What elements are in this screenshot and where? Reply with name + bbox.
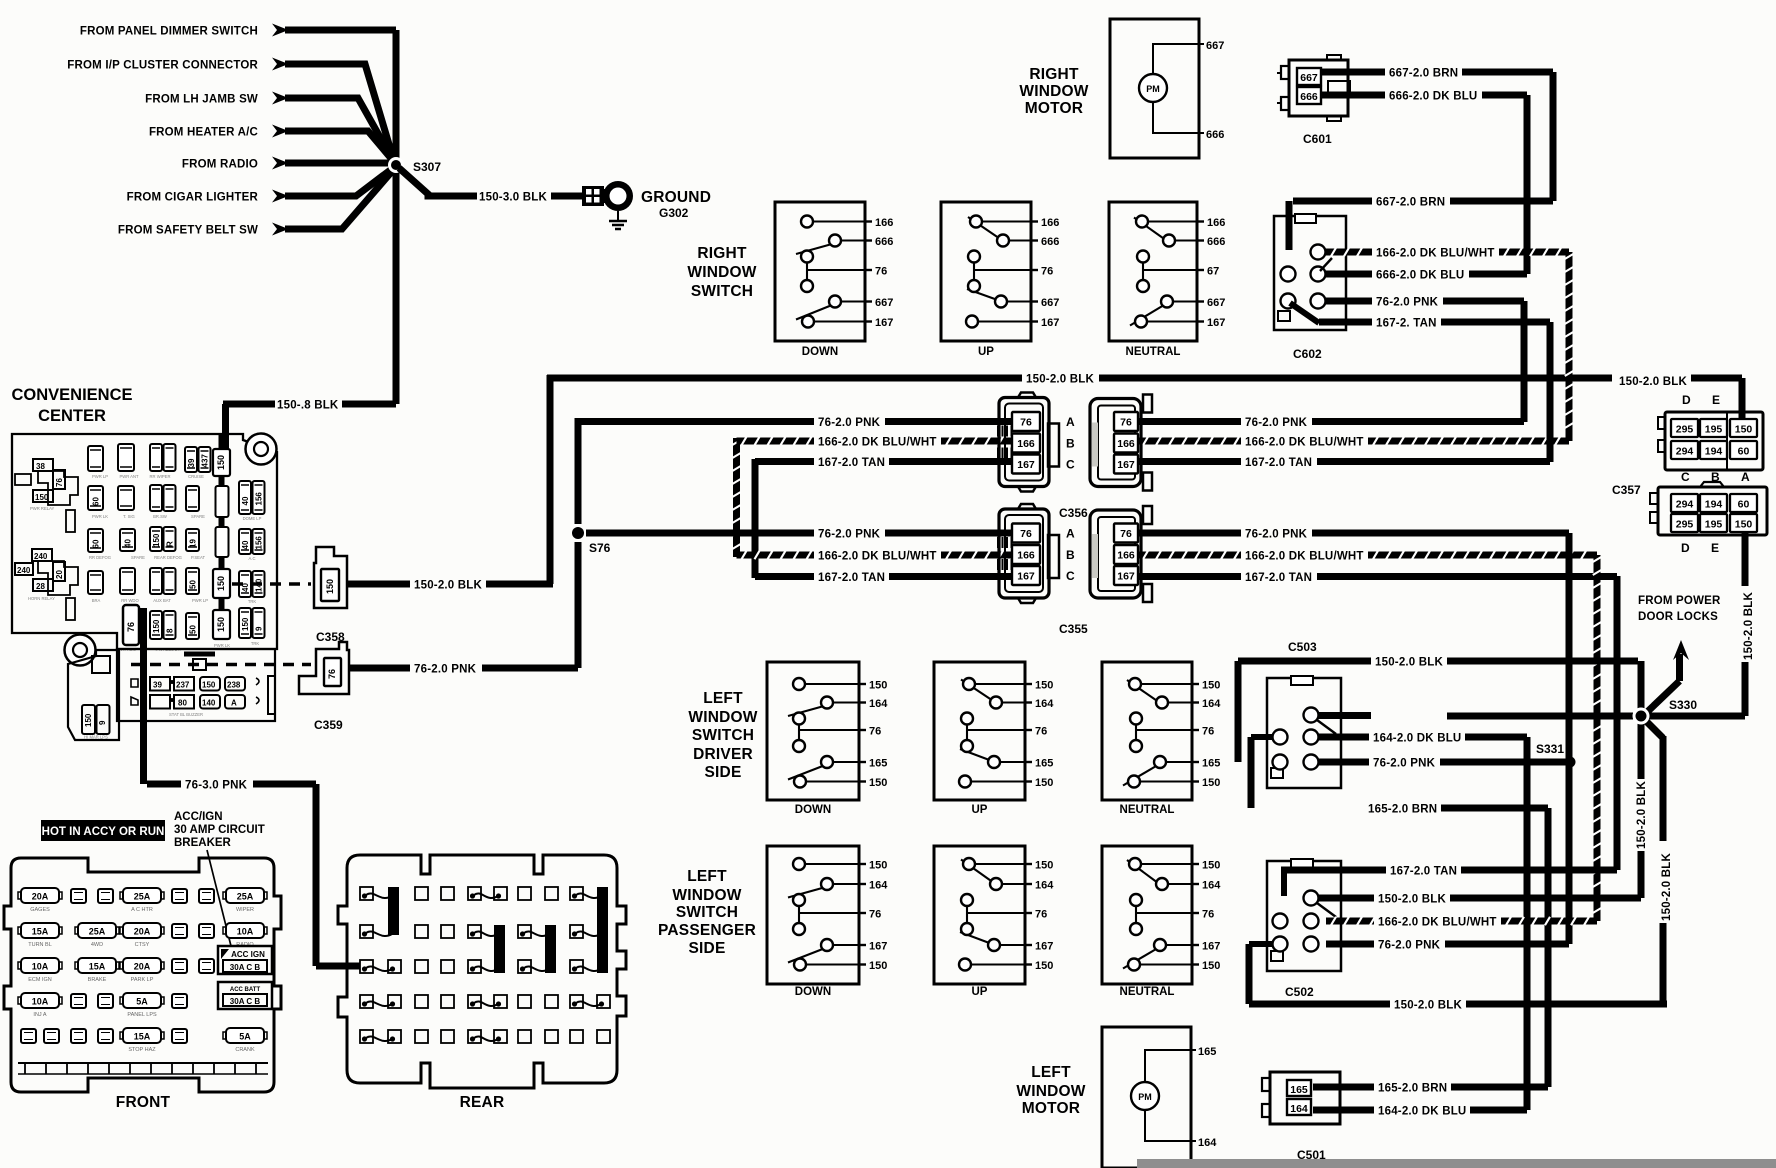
svg-text:76: 76	[1120, 417, 1132, 429]
wire 150-2.0 BLK riser x548	[547, 375, 554, 584]
svg-text:150: 150	[1202, 860, 1220, 872]
svg-text:CRANK: CRANK	[235, 1047, 255, 1053]
svg-text:DOOR LOCKS: DOOR LOCKS	[1638, 611, 1718, 623]
svg-text:150-2.0 BLK: 150-2.0 BLK	[414, 580, 483, 592]
svg-text:SWITCH: SWITCH	[676, 904, 738, 921]
right window switch DOWN	[775, 202, 893, 358]
svg-text:5A: 5A	[136, 997, 148, 1007]
FRONT fuse panel outline	[4, 858, 281, 1092]
svg-text:BR.SW: BR.SW	[153, 514, 167, 519]
svg-text:20A: 20A	[134, 962, 151, 972]
ground symbol	[609, 211, 627, 229]
svg-text:150-3.0 BLK: 150-3.0 BLK	[479, 192, 548, 204]
svg-text:156: 156	[255, 492, 264, 506]
svg-text:5A: 5A	[239, 1032, 251, 1042]
svg-text:76: 76	[126, 622, 136, 632]
REAR panel outline	[338, 855, 626, 1088]
svg-text:150: 150	[1202, 960, 1220, 972]
svg-text:39: 39	[187, 458, 196, 467]
wire 150-3.0 BLK to ground	[399, 168, 582, 204]
svg-text:15A: 15A	[89, 962, 106, 972]
svg-text:167-2.0 TAN: 167-2.0 TAN	[1245, 457, 1312, 469]
svg-text:150: 150	[216, 455, 226, 470]
svg-text:DOWN: DOWN	[802, 346, 838, 358]
label C358	[316, 630, 345, 644]
svg-text:165: 165	[1290, 1084, 1308, 1096]
wire feed FROM SAFETY BELT SW	[118, 169, 394, 237]
svg-text:PARK LP: PARK LP	[131, 977, 154, 983]
svg-text:20A: 20A	[134, 927, 151, 937]
svg-text:166-2.0 DK BLU/WHT: 166-2.0 DK BLU/WHT	[818, 551, 937, 563]
svg-text:76-2.0 PNK: 76-2.0 PNK	[1245, 417, 1308, 429]
svg-text:50: 50	[189, 580, 198, 589]
svg-text:30 AMP CIRCUIT: 30 AMP CIRCUIT	[174, 824, 265, 836]
svg-text:CONVENIENCE: CONVENIENCE	[11, 386, 132, 404]
svg-text:76: 76	[1202, 726, 1214, 738]
dashed line to 150 connector	[232, 582, 311, 586]
svg-text:667-2.0 BRN: 667-2.0 BRN	[1389, 68, 1458, 80]
svg-text:NEUTRAL: NEUTRAL	[1126, 346, 1181, 358]
svg-text:167: 167	[1117, 571, 1135, 583]
svg-text:166-2.0 DK BLU/WHT: 166-2.0 DK BLU/WHT	[1376, 248, 1495, 260]
wire 150-2.0 BLK riser (top line to S330)	[1638, 661, 1645, 712]
svg-text:DOWN: DOWN	[795, 986, 831, 998]
FRONT panel bottom comb	[18, 1063, 268, 1074]
svg-text:BRA: BRA	[92, 598, 101, 603]
wire 667-2.0 BRN (C601)	[1322, 68, 1553, 202]
svg-text:150: 150	[152, 533, 161, 547]
wire 150-2.0 BLK main bus	[547, 374, 1742, 420]
svg-text:167: 167	[1117, 459, 1135, 471]
svg-text:40: 40	[241, 540, 250, 549]
convenience center 150 fuse rail	[213, 434, 230, 639]
svg-text:76-2.0 PNK: 76-2.0 PNK	[1245, 529, 1308, 541]
svg-text:667: 667	[1041, 297, 1059, 309]
svg-text:FROM CIGAR LIGHTER: FROM CIGAR LIGHTER	[127, 192, 259, 204]
label C601	[1303, 132, 1332, 146]
wire 166-2.0 DK BLU/WHT (lower right)	[1138, 551, 1597, 563]
svg-text:ACC IGN: ACC IGN	[231, 950, 265, 959]
svg-text:167: 167	[1202, 941, 1220, 953]
svg-text:667: 667	[875, 297, 893, 309]
wire 667-2.0 BRN (to C602)	[1289, 197, 1553, 251]
wire 76 riser x578	[575, 418, 582, 668]
svg-text:150: 150	[1035, 960, 1053, 972]
svg-text:165-2.0 BRN: 165-2.0 BRN	[1378, 1083, 1447, 1095]
label LEFT WINDOW SWITCH DRIVER SIDE	[688, 690, 757, 781]
splice S76	[572, 527, 611, 555]
svg-text:164: 164	[1290, 1103, 1308, 1115]
svg-text:C359: C359	[314, 718, 343, 732]
svg-text:150: 150	[1202, 777, 1220, 789]
svg-text:150: 150	[1035, 680, 1053, 692]
svg-text:C: C	[1681, 470, 1690, 484]
left window switch passenger DOWN	[767, 846, 888, 998]
svg-text:166: 166	[1017, 550, 1035, 562]
svg-text:PWR LP: PWR LP	[92, 474, 108, 479]
connector pair C355	[998, 504, 1152, 636]
svg-text:25A: 25A	[134, 892, 151, 902]
svg-text:SPARE: SPARE	[191, 514, 205, 519]
svg-text:19: 19	[189, 539, 198, 548]
wire 166 riser x1569 (C602 to C356)	[1565, 252, 1573, 441]
svg-text:164: 164	[1035, 880, 1054, 892]
left window switch driver NEUTRAL	[1102, 662, 1221, 816]
svg-text:164: 164	[1198, 1137, 1217, 1149]
svg-text:SPARE: SPARE	[131, 555, 145, 560]
svg-text:150-2.0 BLK: 150-2.0 BLK	[1743, 591, 1755, 660]
svg-text:666: 666	[1300, 91, 1318, 103]
svg-text:PWR LP: PWR LP	[192, 598, 208, 603]
FRONT panel ACC BATT 30A circuit breaker	[218, 982, 272, 1009]
dashed line to C358	[131, 663, 311, 667]
svg-text:TRK: TRK	[248, 599, 257, 604]
svg-text:150: 150	[325, 579, 335, 594]
svg-text:666: 666	[1207, 236, 1225, 248]
svg-text:T. SIG: T. SIG	[123, 514, 135, 519]
svg-text:50: 50	[189, 625, 198, 634]
svg-text:BREAKER: BREAKER	[174, 837, 232, 849]
wire 166 riser x1597 (C355 to C502)	[1593, 555, 1601, 921]
svg-text:150: 150	[241, 617, 250, 631]
svg-text:A: A	[231, 699, 237, 708]
svg-text:RR DEFOG: RR DEFOG	[89, 555, 111, 560]
svg-text:238: 238	[227, 681, 241, 690]
svg-text:D: D	[1682, 393, 1691, 407]
svg-text:666-2.0 DK BLU: 666-2.0 DK BLU	[1376, 270, 1464, 282]
svg-text:166: 166	[875, 217, 893, 229]
svg-text:60: 60	[1738, 499, 1750, 511]
svg-text:10A: 10A	[32, 997, 49, 1007]
label GROUND G302	[641, 189, 711, 220]
svg-text:CENTER: CENTER	[38, 407, 106, 425]
svg-text:166: 166	[1207, 217, 1225, 229]
svg-text:FROM POWER: FROM POWER	[1638, 595, 1721, 607]
wire 150-2.0 BLK (S330 to C503)	[1447, 713, 1633, 720]
wire 150-2.0 BLK (top run into C503)	[762, 657, 1638, 1168]
svg-text:RR WDO: RR WDO	[121, 598, 139, 603]
svg-text:C502: C502	[1285, 985, 1314, 999]
REAR panel terminal grid	[360, 887, 610, 1043]
svg-text:150-2.0 BLK: 150-2.0 BLK	[1636, 780, 1648, 849]
svg-text:WINDOW: WINDOW	[687, 264, 756, 281]
convenience center lower-left panel	[68, 650, 119, 740]
wire 166-2.0 DK BLU/WHT (upper left)	[737, 437, 1013, 449]
svg-text:150: 150	[869, 960, 887, 972]
wire feed FROM I/P CLUSTER CONNECTOR	[67, 58, 394, 162]
svg-text:D: D	[1681, 541, 1690, 555]
svg-text:GAGES: GAGES	[30, 907, 50, 913]
svg-text:HORN RELAY: HORN RELAY	[28, 596, 55, 601]
svg-text:PM: PM	[1146, 84, 1160, 94]
svg-text:28: 28	[36, 582, 45, 591]
svg-text:150: 150	[1035, 860, 1053, 872]
svg-text:30A C B: 30A C B	[230, 997, 261, 1006]
svg-text:SIDE: SIDE	[705, 764, 742, 781]
label ACC/IGN 30 AMP CIRCUIT BREAKER	[174, 811, 265, 946]
svg-text:76: 76	[875, 266, 887, 278]
svg-text:C: C	[1066, 458, 1075, 472]
svg-text:150: 150	[1202, 680, 1220, 692]
svg-text:9: 9	[255, 626, 264, 631]
svg-text:A: A	[1741, 470, 1750, 484]
wire 167-2.0 TAN (upper right)	[1138, 457, 1550, 469]
svg-text:167: 167	[1035, 941, 1053, 953]
svg-text:150: 150	[869, 680, 887, 692]
wire 166-2.0 DK BLU/WHT (C602)	[1326, 248, 1569, 260]
svg-text:FROM RADIO: FROM RADIO	[182, 159, 258, 171]
wire 167-2.0 TAN (lower right)	[1138, 572, 1617, 584]
svg-text:437: 437	[201, 454, 210, 468]
svg-text:E: E	[1711, 541, 1719, 555]
svg-text:76: 76	[869, 909, 881, 921]
svg-text:667-2.0 BRN: 667-2.0 BRN	[1376, 197, 1445, 209]
label LEFT WINDOW MOTOR	[1016, 1064, 1085, 1117]
svg-text:P.SEAT: P.SEAT	[191, 555, 205, 560]
wire 150-2.0 BLK (C502)	[1318, 894, 1641, 906]
svg-text:20A: 20A	[32, 892, 49, 902]
wire 76-3.0 PNK	[144, 608, 361, 966]
wire 666-2.0 DK BLU (C602)	[1326, 270, 1527, 282]
svg-text:UP: UP	[972, 804, 988, 816]
svg-text:PASSENGER: PASSENGER	[658, 922, 756, 939]
svg-text:150: 150	[1035, 777, 1053, 789]
svg-text:666: 666	[1041, 236, 1059, 248]
svg-text:FROM HEATER A/C: FROM HEATER A/C	[149, 127, 258, 139]
svg-text:194: 194	[1705, 499, 1723, 511]
connector C357 body side	[1658, 393, 1763, 484]
REAR panel jumper traces	[362, 893, 604, 1041]
svg-text:CTSY: CTSY	[135, 942, 150, 948]
left window motor	[1102, 1027, 1217, 1168]
svg-text:164: 164	[869, 698, 888, 710]
svg-text:150-2.0 BLK: 150-2.0 BLK	[1661, 852, 1673, 921]
wire 76-2.0 PNK (lower right)	[1138, 529, 1569, 541]
svg-text:150: 150	[1735, 424, 1753, 436]
svg-text:30A C B: 30A C B	[230, 963, 261, 972]
svg-text:165: 165	[1035, 758, 1053, 770]
svg-text:C503: C503	[1288, 640, 1317, 654]
svg-text:76-2.0 PNK: 76-2.0 PNK	[1378, 940, 1441, 952]
svg-text:S76: S76	[589, 541, 611, 555]
wire 76-2.0 PNK from C358	[349, 664, 578, 676]
label C502	[1285, 985, 1314, 999]
left window switch driver DOWN	[767, 662, 888, 816]
label C602	[1293, 347, 1322, 361]
wire 76 riser x1569 (C355 to S331 to C502)	[1566, 533, 1573, 944]
FRONT panel fuses	[18, 888, 267, 1043]
svg-text:150-2.0 BLK: 150-2.0 BLK	[1378, 894, 1447, 906]
right window switch UP	[941, 202, 1059, 358]
svg-text:150: 150	[1735, 519, 1753, 531]
svg-text:167: 167	[1017, 571, 1035, 583]
svg-text:240: 240	[34, 552, 48, 561]
svg-text:4WD: 4WD	[91, 942, 103, 948]
convenience center fuse 76	[123, 605, 139, 645]
svg-text:A: A	[1066, 527, 1075, 541]
wire 666-2.0 DK BLU (C601)	[1322, 91, 1527, 275]
convenience center relay block lower-left	[15, 549, 78, 601]
svg-text:76: 76	[1041, 266, 1053, 278]
svg-text:RIGHT: RIGHT	[697, 245, 747, 262]
label REAR	[460, 1094, 505, 1111]
wire 165 riser x1548	[1545, 808, 1552, 1087]
svg-text:60: 60	[92, 539, 101, 548]
svg-text:SWITCH: SWITCH	[691, 283, 753, 300]
svg-text:76-2.0 PNK: 76-2.0 PNK	[818, 529, 881, 541]
svg-text:MOTOR: MOTOR	[1025, 100, 1083, 117]
right window motor	[1110, 19, 1224, 158]
svg-text:295: 295	[1676, 424, 1694, 436]
svg-text:CRUISE: CRUISE	[188, 474, 204, 479]
svg-text:156: 156	[255, 536, 264, 550]
right window switch NEUTRAL	[1109, 202, 1225, 358]
svg-text:C: C	[1066, 569, 1075, 583]
svg-text:150: 150	[202, 681, 216, 690]
svg-text:667: 667	[1206, 40, 1224, 52]
svg-text:FROM LH JAMB SW: FROM LH JAMB SW	[145, 94, 258, 106]
svg-text:UP: UP	[978, 346, 994, 358]
wire 76-2.0 PNK (upper left)	[575, 417, 1012, 429]
svg-text:LEFT: LEFT	[703, 690, 743, 707]
svg-text:40: 40	[241, 496, 250, 505]
svg-text:166-2.0 DK BLU/WHT: 166-2.0 DK BLU/WHT	[1245, 437, 1364, 449]
svg-text:166-2.0 DK BLU/WHT: 166-2.0 DK BLU/WHT	[1245, 551, 1364, 563]
svg-text:HOT IN ACCY OR RUN: HOT IN ACCY OR RUN	[42, 826, 165, 838]
connector C601	[1277, 55, 1350, 121]
svg-text:8: 8	[166, 628, 175, 633]
svg-text:9: 9	[98, 720, 107, 725]
svg-text:15A: 15A	[32, 927, 49, 937]
svg-text:76: 76	[55, 478, 64, 487]
wire 167-2.0 TAN (lower left)	[755, 572, 1012, 584]
wire 167-2.0 TAN (C502)	[1281, 866, 1617, 897]
svg-text:S331: S331	[1536, 742, 1564, 756]
svg-text:20: 20	[55, 570, 64, 579]
wire 150-2.0 BLK (S330 down to C502 150)	[1450, 720, 1648, 898]
svg-text:67: 67	[1207, 266, 1219, 278]
svg-text:REAR: REAR	[460, 1094, 505, 1111]
svg-text:167: 167	[1041, 317, 1059, 329]
svg-text:167-2.0 TAN: 167-2.0 TAN	[818, 457, 885, 469]
wire 166-2.0 DK BLU/WHT (upper right)	[1138, 437, 1569, 449]
svg-text:166-2.0 DK BLU/WHT: 166-2.0 DK BLU/WHT	[1378, 917, 1497, 929]
svg-text:NEUTRAL: NEUTRAL	[1120, 804, 1175, 816]
svg-text:DRIVER: DRIVER	[693, 746, 753, 763]
connector pair C356	[998, 393, 1152, 521]
wire 76-2.0 PNK (C502)	[1326, 940, 1569, 952]
svg-text:C356: C356	[1059, 506, 1088, 520]
svg-text:15A: 15A	[134, 1032, 151, 1042]
svg-text:164: 164	[869, 880, 888, 892]
svg-text:76: 76	[1120, 528, 1132, 540]
wire 167-2.0 TAN (upper left)	[755, 457, 1012, 469]
wire 150-2.0 BLK (C502 bottom run)	[1249, 944, 1667, 1012]
ground ring terminal G302	[582, 181, 633, 211]
svg-text:GROUND: GROUND	[641, 189, 711, 206]
wire 76-2.0 PNK (C602)	[1326, 297, 1524, 309]
svg-text:C357: C357	[1612, 483, 1641, 497]
svg-text:150: 150	[35, 493, 49, 502]
wire 164 riser x1527	[1524, 737, 1531, 1110]
wire 76 riser x1524 (C602 to C356)	[1521, 301, 1528, 422]
wire 167 riser x1550 (C602 to C356)	[1547, 322, 1554, 462]
svg-text:667: 667	[1300, 72, 1318, 84]
svg-text:C602: C602	[1293, 347, 1322, 361]
svg-text:NEUTRAL: NEUTRAL	[1120, 986, 1175, 998]
svg-text:A: A	[1066, 415, 1075, 429]
svg-text:166: 166	[1017, 438, 1035, 450]
svg-text:BRAKE: BRAKE	[88, 977, 107, 983]
left window switch driver UP	[934, 662, 1054, 816]
connector C357 door side	[1650, 482, 1767, 555]
splice S331	[1536, 742, 1576, 768]
wire 167 link riser x755	[752, 459, 759, 578]
svg-text:165-2.0 BRN: 165-2.0 BRN	[1368, 804, 1437, 816]
wire 165-2.0 BRN (C501)	[1313, 1083, 1548, 1095]
svg-text:666-2.0 DK BLU: 666-2.0 DK BLU	[1389, 91, 1477, 103]
svg-text:164: 164	[1035, 698, 1054, 710]
label HOT IN ACCY OR RUN	[41, 820, 165, 841]
svg-text:76: 76	[869, 726, 881, 738]
svg-text:240: 240	[17, 566, 31, 575]
svg-text:76-2.0 PNK: 76-2.0 PNK	[1376, 297, 1439, 309]
svg-text:WINDOW: WINDOW	[672, 887, 741, 904]
svg-text:FROM PANEL DIMMER SWITCH: FROM PANEL DIMMER SWITCH	[80, 26, 258, 38]
svg-text:40: 40	[124, 539, 133, 548]
svg-text:76: 76	[1020, 417, 1032, 429]
label LEFT WINDOW SWITCH PASSENGER SIDE	[658, 868, 756, 957]
svg-text:E: E	[1712, 393, 1720, 407]
wire feed FROM CIGAR LIGHTER	[127, 168, 393, 204]
svg-text:150-2.0 BLK: 150-2.0 BLK	[1026, 374, 1095, 386]
svg-text:150: 150	[869, 860, 887, 872]
svg-text:294: 294	[1676, 446, 1694, 458]
svg-text:TURN BL: TURN BL	[28, 942, 52, 948]
svg-text:PM: PM	[1138, 1092, 1152, 1102]
svg-text:A C HTR: A C HTR	[131, 907, 153, 913]
connector 150 (convenience center output)	[314, 547, 347, 608]
svg-text:237: 237	[176, 681, 190, 690]
svg-text:164-2.0 DK BLU: 164-2.0 DK BLU	[1373, 733, 1461, 745]
svg-text:666: 666	[875, 236, 893, 248]
svg-text:UP: UP	[972, 986, 988, 998]
svg-text:194: 194	[1705, 446, 1723, 458]
wire 76-2.0 PNK (lower left)	[586, 529, 1012, 541]
svg-text:WIPER: WIPER	[236, 907, 254, 913]
svg-text:ECM IGN: ECM IGN	[28, 977, 52, 983]
svg-text:667: 667	[1207, 297, 1225, 309]
svg-text:150-.8 BLK: 150-.8 BLK	[277, 400, 339, 412]
svg-text:166: 166	[1117, 438, 1135, 450]
connector C501	[1262, 1072, 1340, 1124]
svg-text:165: 165	[1198, 1046, 1216, 1058]
svg-text:10A: 10A	[237, 927, 254, 937]
svg-text:76-2.0 PNK: 76-2.0 PNK	[1373, 758, 1436, 770]
svg-text:25A: 25A	[237, 892, 254, 902]
connector C503	[1267, 676, 1341, 788]
svg-text:164: 164	[1202, 880, 1221, 892]
svg-text:294: 294	[1676, 499, 1694, 511]
wire S307 vertical (dimmer feed down to 150-.8 BLK)	[393, 30, 400, 404]
svg-text:PWR LK: PWR LK	[92, 514, 108, 519]
svg-text:FRONT: FRONT	[116, 1094, 171, 1111]
svg-text:STOP HAZ: STOP HAZ	[128, 1047, 156, 1053]
svg-text:HI MAR LPS: HI MAR LPS	[84, 735, 108, 740]
wire 167-2. TAN (C602)	[1319, 318, 1550, 330]
svg-text:S330: S330	[1669, 698, 1697, 712]
REAR panel bus bars	[388, 887, 608, 973]
